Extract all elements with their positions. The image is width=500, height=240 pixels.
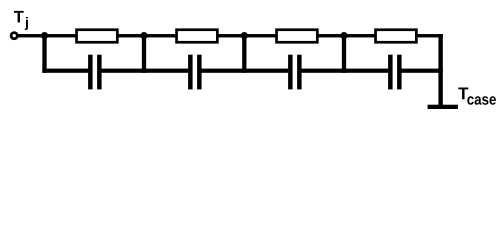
wire vertical from node 2 [142,34,146,73]
wire bottom rail segment 2 [102,69,189,73]
thermal RC ladder (Cauer network) schematic [0,0,500,125]
terminal Tj (open circle) [11,33,17,39]
wire bottom rail segment 3 [202,69,289,73]
wire bottom rail segment 1 [42,69,88,73]
node Tj label "T" [14,11,24,22]
wire vertical from node 4 [342,34,346,73]
wire vertical from node 1 [42,34,46,73]
resistor R1 [77,30,118,43]
capacitor C4 [388,55,402,90]
resistor R2 [177,30,218,43]
wire bottom rail segment 5 [402,69,443,73]
capacitor C2 [188,55,202,90]
capacitor C1 [88,55,102,90]
wire vertical from node 3 [242,34,246,73]
node Tcase label subscript "case" [467,96,496,105]
capacitor C3 [288,55,302,90]
node junction dot 2 [140,32,147,39]
node junction dot 1 [41,32,48,39]
ground Tcase bar [428,105,458,109]
wire bottom rail segment 4 [302,69,389,73]
node junction dot 4 [340,32,347,39]
node Tcase label "T" [458,88,468,100]
node junction dot 3 [241,32,248,39]
wire top rail [17,34,443,37]
node Tj label subscript "j" [25,17,28,30]
resistor R4 [376,30,417,43]
wire right vertical drop [438,34,442,107]
resistor R3 [277,30,318,43]
